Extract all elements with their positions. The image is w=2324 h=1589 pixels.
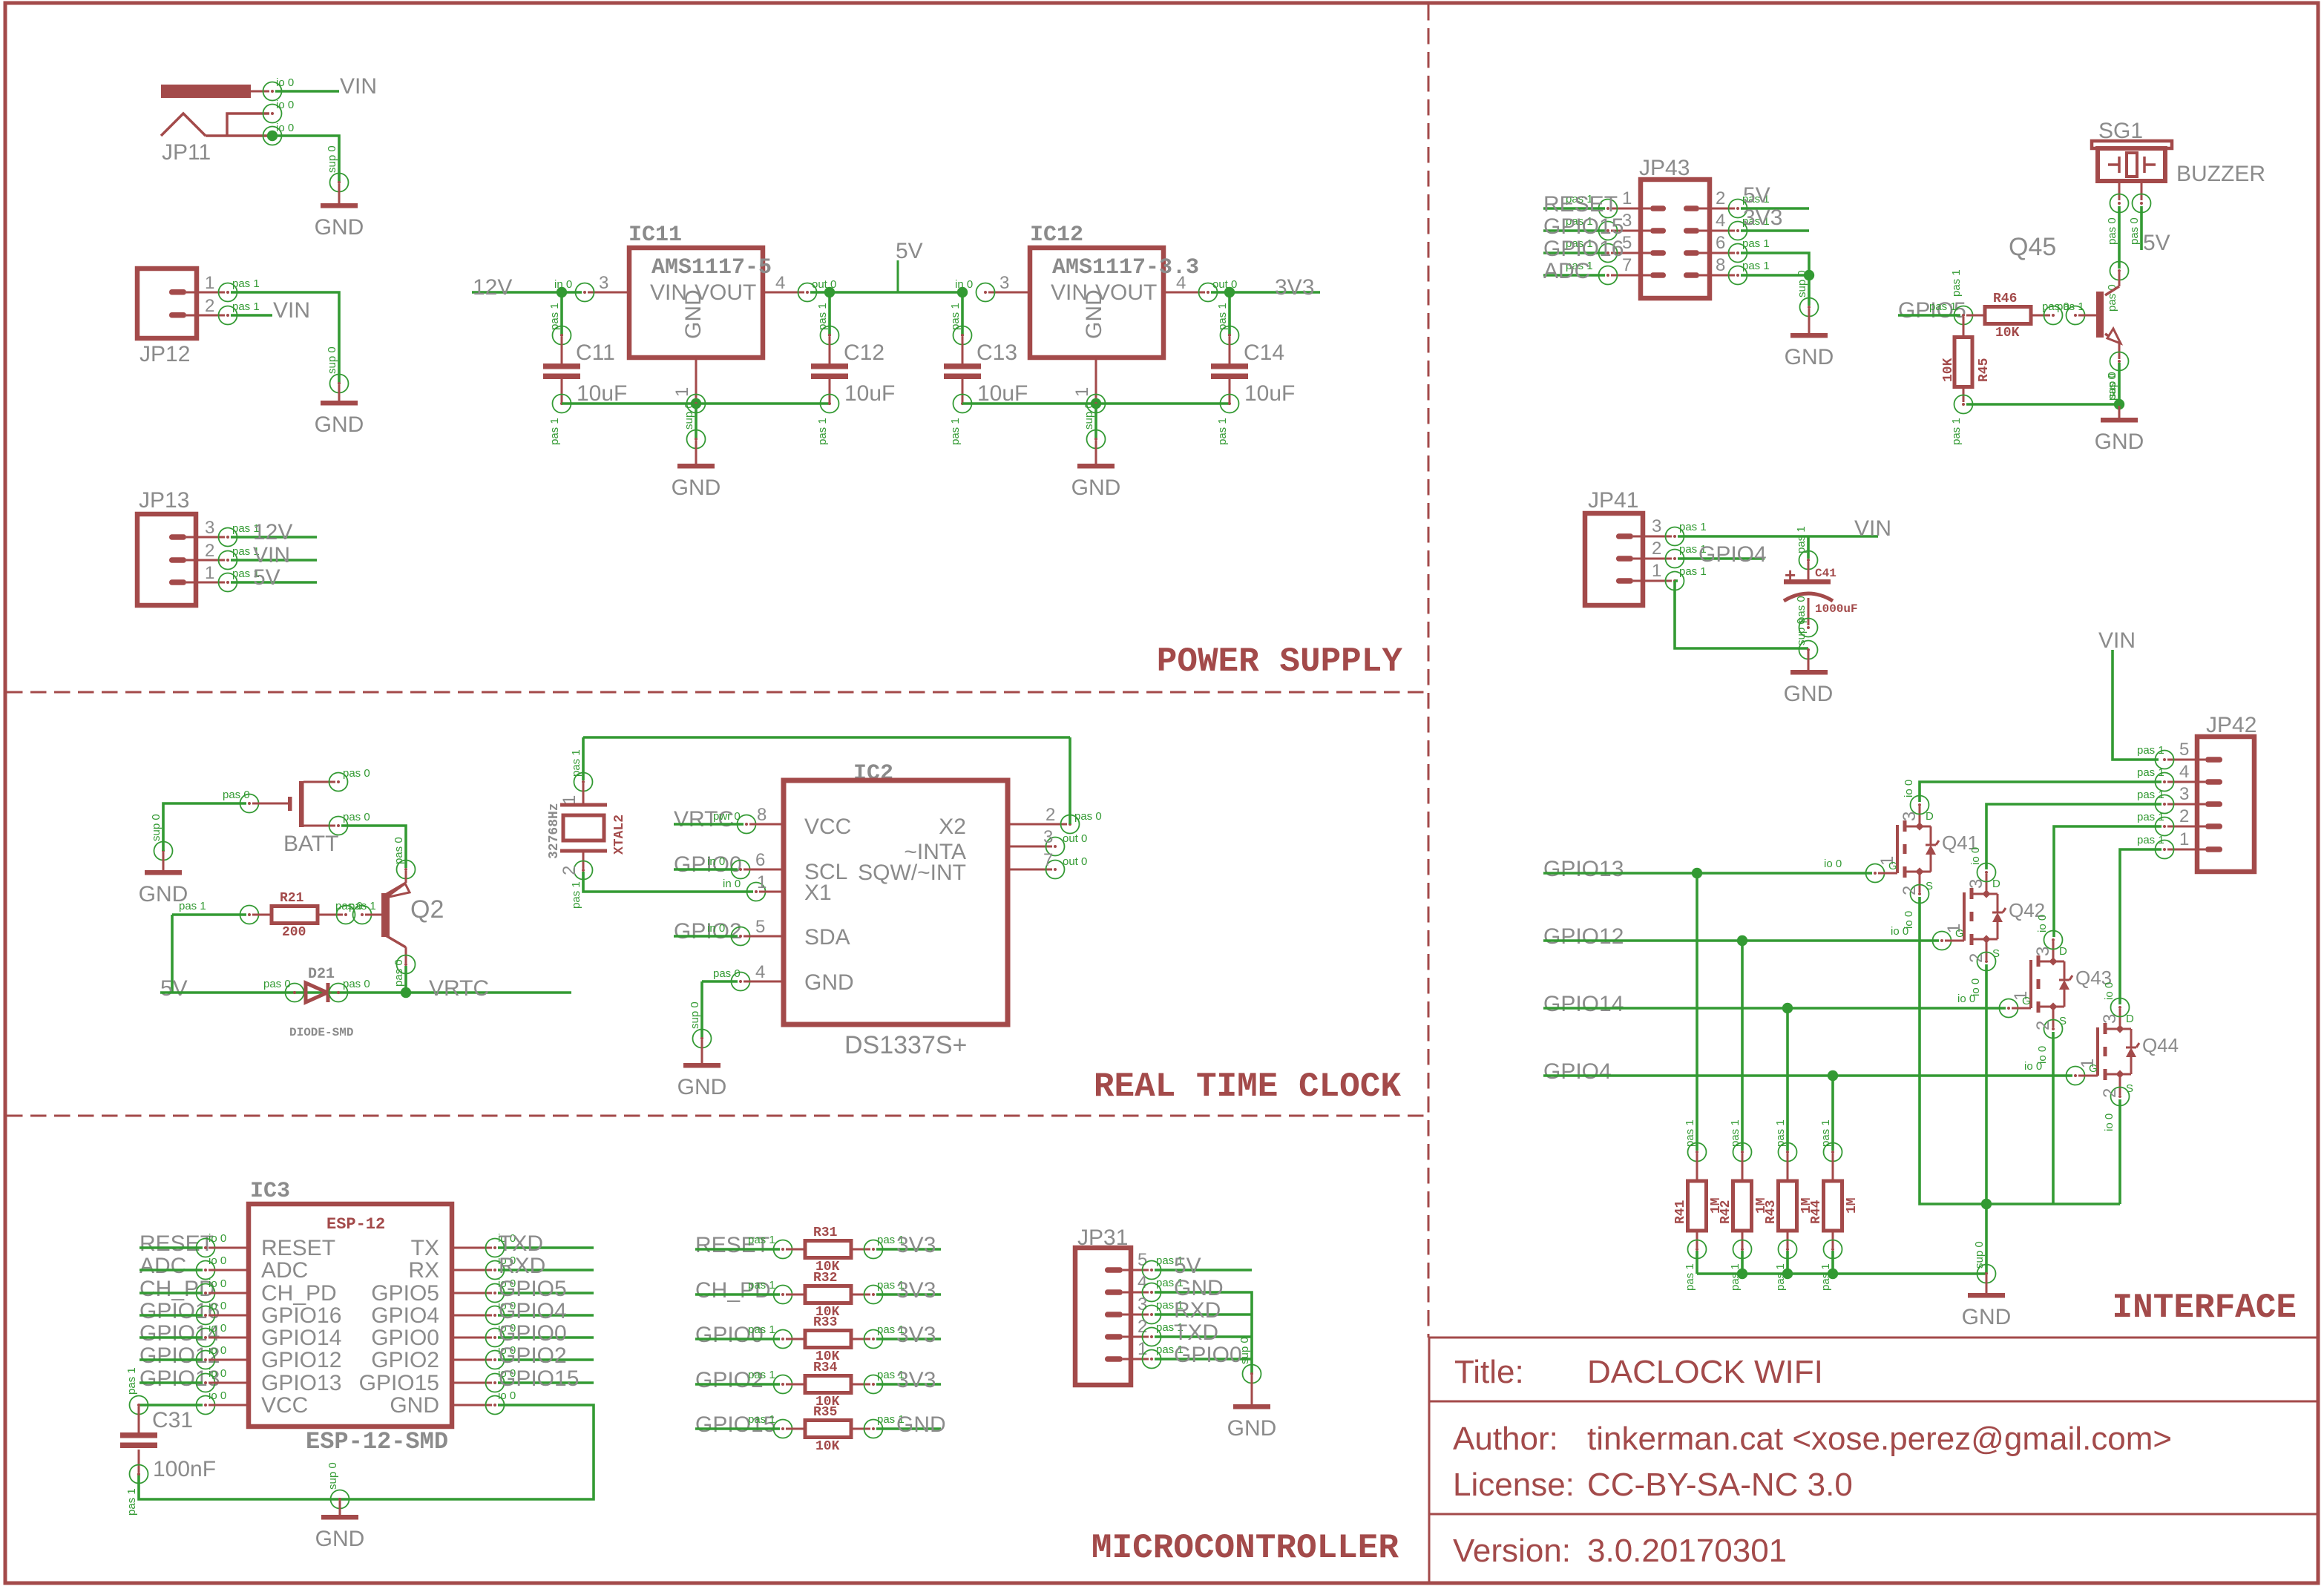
svg-text:sup 0: sup 0 [683,402,695,430]
wire GPIO12 to R42 [1741,941,1744,1151]
svg-text:4: 4 [775,273,785,293]
wire battery to Q2 emitter [341,826,406,868]
svg-text:GND: GND [315,1527,365,1551]
capacitor C13 [961,292,964,335]
title block frame [1429,1337,2317,1339]
svg-text:3V3: 3V3 [1275,275,1314,300]
svg-text:in 0: in 0 [723,878,741,890]
svg-text:GPIO4: GPIO4 [1543,1059,1612,1084]
svg-text:1: 1 [1622,188,1632,208]
svg-text:pas 1: pas 1 [1742,260,1770,272]
svg-text:BATT: BATT [283,832,338,856]
svg-text:2: 2 [1900,886,1920,895]
transistor Q2 (PNP) [405,871,407,883]
svg-text:Q44: Q44 [2142,1034,2179,1056]
svg-text:3: 3 [599,273,608,293]
svg-text:pas 1: pas 1 [548,303,561,330]
svg-text:io 0: io 0 [2103,1113,2115,1131]
svg-text:5V: 5V [160,976,188,1001]
svg-text:2: 2 [1652,539,1661,559]
svg-text:GPIO12: GPIO12 [1543,924,1624,949]
svg-text:pas 1: pas 1 [570,749,582,777]
junction source rail [1981,1199,1992,1209]
svg-text:pas 0: pas 0 [713,967,741,980]
IC11 pin 3 VIN [588,292,629,294]
svg-text:License:: License: [1453,1467,1575,1503]
svg-text:GND: GND [1227,1416,1277,1441]
svg-text:4: 4 [2179,762,2189,782]
svg-text:IC11: IC11 [628,223,682,248]
IC11 pin 1 GND [695,358,697,404]
svg-text:io 0: io 0 [209,1389,226,1402]
JP42 pin 2 [2205,823,2222,829]
svg-text:C12: C12 [844,340,884,365]
svg-text:10K: 10K [1995,326,2020,340]
svg-text:DACLOCK WIFI: DACLOCK WIFI [1587,1354,1823,1390]
svg-text:G: G [1955,927,1964,940]
svg-text:pas 0: pas 0 [393,959,405,987]
ground GND (IC12) [1087,430,1106,449]
svg-text:AMS1117-5: AMS1117-5 [651,255,772,280]
junction Q2/VRTC [401,987,411,998]
svg-text:12V: 12V [253,520,292,545]
svg-text:3: 3 [999,273,1009,293]
svg-text:Q2: Q2 [410,895,444,924]
junction GPIO14 / R43 [1782,1003,1793,1013]
svg-text:IC3: IC3 [250,1179,290,1204]
svg-text:pas 1: pas 1 [748,1323,775,1336]
svg-text:5V: 5V [1174,1254,1201,1278]
wire VIN from JP11 [275,90,339,93]
svg-text:sup 0: sup 0 [326,145,338,173]
JP41 pin 1 [1616,578,1633,584]
svg-text:3: 3 [205,518,214,538]
svg-text:CH_PD: CH_PD [139,1277,215,1301]
svg-text:pas 1: pas 1 [232,300,260,313]
svg-text:VIN: VIN [273,298,310,323]
svg-text:pas 1: pas 1 [1929,300,1957,313]
wire 5V to R21 [171,915,174,993]
svg-text:1M: 1M [1845,1197,1859,1214]
svg-text:pas 1: pas 1 [816,303,829,330]
svg-text:100nF: 100nF [153,1457,216,1481]
junction 5V / C13 [957,287,968,297]
svg-text:io 0: io 0 [1824,858,1842,870]
svg-text:1: 1 [672,387,692,397]
wire gnd drop [1985,1204,1988,1274]
svg-text:3: 3 [2100,1014,2120,1024]
svg-text:2: 2 [2179,806,2189,826]
IC12 pin 3 VIN [988,292,1030,294]
resistor R21 [172,913,246,916]
svg-text:VIN: VIN [2098,628,2136,653]
svg-text:pas 1: pas 1 [748,1234,775,1246]
svg-text:REAL TIME CLOCK: REAL TIME CLOCK [1094,1067,1401,1106]
junction GPIO13 / R41 [1692,868,1702,878]
svg-text:4: 4 [1176,273,1186,293]
svg-text:sup 0: sup 0 [1083,402,1095,430]
pin circles JP12 [219,283,237,302]
net 12V wire [472,291,582,294]
svg-text:CH_PD: CH_PD [261,1281,337,1306]
JP43 pin 7 (ADC) [1650,272,1666,278]
svg-text:io 0: io 0 [1903,780,1915,797]
wire battery to gnd [163,803,246,851]
svg-text:3V3: 3V3 [896,1368,936,1392]
svg-text:io 0: io 0 [2024,1060,2042,1073]
ground GND (C41) [1799,641,1818,659]
svg-text:5V: 5V [1743,183,1770,208]
svg-text:GPIO4: GPIO4 [371,1303,439,1328]
ground GND (IC3) [331,1490,349,1509]
svg-text:ESP-12-SMD: ESP-12-SMD [306,1428,448,1455]
IC12 pin 4 VOUT [1163,292,1205,294]
svg-text:R34: R34 [813,1361,838,1375]
IC2 pin 4 GND [702,980,738,983]
wire to ground (IC12) [1094,404,1097,439]
svg-text:1: 1 [757,872,767,892]
svg-text:X1: X1 [804,881,832,905]
svg-text:10uF: 10uF [577,381,627,406]
wire JP42.3 to Q42 drain [1986,804,2161,869]
svg-text:pas 1: pas 1 [2137,744,2164,757]
svg-text:io 0: io 0 [276,122,294,134]
svg-text:GPIO16: GPIO16 [261,1303,341,1328]
ground GND (Q45) [2118,406,2121,418]
svg-text:2: 2 [1966,953,1986,963]
svg-text:JP12: JP12 [139,342,190,366]
wire MOSFET sources to gnd rail [1920,897,2120,1204]
svg-text:in 0: in 0 [554,278,572,291]
junction GPIO12 / R42 [1737,935,1747,946]
svg-text:pas 1: pas 1 [1679,521,1707,533]
JP13 pin 1 (5V) [169,579,186,585]
svg-text:pas 1: pas 1 [548,418,561,445]
svg-text:RESET: RESET [139,1231,214,1256]
svg-text:GND: GND [1174,1276,1224,1300]
svg-text:sup 0: sup 0 [689,1001,701,1029]
wire JP11 to GND [275,136,339,182]
svg-text:R44: R44 [1809,1200,1824,1224]
svg-text:5V: 5V [253,565,280,590]
JP41 pin 3 [1616,533,1633,539]
svg-text:pas 1: pas 1 [179,900,206,912]
svg-text:pas 1: pas 1 [1795,526,1808,553]
svg-text:ADC: ADC [1543,259,1590,283]
svg-text:io 0: io 0 [209,1344,226,1357]
svg-text:pas 1: pas 1 [2137,834,2164,846]
svg-text:S: S [2126,1082,2133,1095]
svg-text:GND: GND [896,1412,946,1437]
JP43 pin 8 [1684,272,1699,278]
svg-text:C13: C13 [976,340,1017,365]
svg-text:pas 0: pas 0 [343,811,370,823]
svg-text:pas 1: pas 1 [2057,300,2084,313]
capacitor C14 [1228,292,1231,335]
svg-text:GND: GND [1784,682,1834,706]
junction JP43 gnd [1804,270,1814,280]
svg-text:POWER SUPPLY: POWER SUPPLY [1157,642,1403,681]
svg-text:pas 1: pas 1 [125,1488,138,1516]
svg-text:sup 0: sup 0 [326,346,338,374]
svg-text:GPIO14: GPIO14 [261,1326,341,1350]
svg-text:GPIO5: GPIO5 [371,1281,439,1306]
svg-text:pas 1: pas 1 [816,418,829,445]
svg-text:GND: GND [2095,430,2144,454]
svg-text:1: 1 [1072,387,1092,397]
svg-text:out 0: out 0 [1063,855,1087,868]
svg-text:INTERFACE: INTERFACE [2113,1289,2297,1327]
wire JP42.4 to Q41 drain [1920,782,2161,802]
ground GND (IC11) [687,430,706,449]
svg-text:VIN: VIN [1854,516,1891,541]
IC12 pin 1 GND [1095,358,1097,404]
ground GND (interface) [1977,1265,1996,1283]
svg-text:out 0: out 0 [1063,832,1087,845]
resistor R41 (1M) [1688,1143,1707,1162]
resistor R43 (1M) [1779,1143,1797,1162]
svg-text:XTAL2: XTAL2 [612,815,627,855]
svg-text:D: D [2126,1013,2134,1025]
svg-text:200: 200 [282,925,306,940]
JP43 pin 4 (3V3) [1684,228,1699,234]
svg-text:RESET: RESET [1543,192,1618,217]
junction VOUT / C12 [824,287,835,297]
svg-text:+: + [1785,564,1796,586]
svg-text:pas 0: pas 0 [343,978,370,990]
svg-text:pas 1: pas 1 [125,1367,138,1395]
svg-text:sup 0: sup 0 [1973,1241,1986,1269]
IC2 pin 2 X2 [1008,823,1067,826]
svg-text:JP13: JP13 [139,488,189,513]
svg-text:pas 1: pas 1 [1684,1263,1696,1291]
svg-text:R31: R31 [813,1226,838,1240]
svg-text:3: 3 [2179,784,2189,804]
svg-text:5V: 5V [896,239,923,263]
ground GND (JP43) [1800,298,1819,317]
ground GND (JP11) [330,174,349,192]
wire R45 to gnd rail [1966,403,2119,406]
transistor Q43 (N-MOSFET) [2000,999,2018,1018]
svg-text:G: G [2022,995,2031,1007]
capacitor C11 [560,292,563,335]
svg-text:S: S [1992,947,2000,960]
svg-text:io 0: io 0 [209,1254,226,1267]
svg-text:pas 1: pas 1 [949,303,962,330]
svg-text:pas 0: pas 0 [1074,810,1102,823]
transistor Q42 (N-MOSFET) [1933,932,1952,950]
svg-text:R35: R35 [813,1405,837,1420]
svg-text:RXD: RXD [1174,1298,1221,1323]
svg-text:pas 0: pas 0 [223,789,250,801]
svg-text:1: 1 [205,563,214,583]
svg-text:GPIO0: GPIO0 [371,1326,439,1350]
svg-text:VRTC: VRTC [429,976,489,1001]
connector JP11 (DC jack) [161,85,251,98]
section divider vertical dashed [1428,4,1430,1338]
svg-text:1: 1 [1652,561,1661,581]
svg-text:C41: C41 [1815,567,1836,580]
svg-text:R45: R45 [1977,358,1992,382]
svg-text:1: 1 [205,273,214,293]
svg-text:sup 0: sup 0 [150,814,163,841]
svg-text:5V: 5V [2143,231,2170,255]
svg-text:10K: 10K [815,1439,840,1454]
svg-text:io 0: io 0 [2036,915,2049,932]
svg-text:pas 0: pas 0 [2106,217,2118,245]
svg-text:pas 1: pas 1 [349,900,376,912]
JP43 pin 5 (GPIO16) [1650,250,1666,256]
junction VOUT / C14 [1224,287,1235,297]
svg-text:io 0: io 0 [498,1389,516,1402]
svg-text:D: D [1926,810,1934,823]
ground GND (IC2) [693,1030,712,1048]
wire JP42.1 to Q44 drain [2120,849,2161,1004]
wire GPIO4 to R44 [1831,1076,1834,1151]
JP43 pin 2 (5V) [1684,205,1699,211]
svg-text:GPIO15: GPIO15 [499,1366,579,1391]
SG1 pin 2 / net 5V [2141,181,2143,200]
svg-text:JP42: JP42 [2206,713,2256,737]
svg-text:C14: C14 [1244,340,1284,365]
svg-text:sup 0: sup 0 [1796,270,1808,297]
svg-text:4: 4 [1716,211,1725,231]
svg-text:Author:: Author: [1453,1421,1558,1457]
svg-text:3V3: 3V3 [1743,205,1782,230]
svg-text:GND: GND [315,412,364,437]
svg-text:CC-BY-SA-NC 3.0: CC-BY-SA-NC 3.0 [1587,1467,1853,1503]
svg-text:TX: TX [411,1236,439,1260]
JP42 pin 1 [2205,846,2222,852]
wire IC3 GND loop to C31 [139,1405,594,1499]
svg-text:GPIO2: GPIO2 [371,1348,439,1372]
svg-text:pas 1: pas 1 [570,881,582,909]
svg-text:in 0: in 0 [707,855,725,868]
JP31 pin 4 (GND) [1105,1289,1123,1295]
capacitor C31 [138,1407,140,1432]
JP31 pin 1 (GPIO0) [1105,1356,1123,1362]
svg-text:DIODE-SMD: DIODE-SMD [289,1026,353,1039]
svg-text:MICROCONTROLLER: MICROCONTROLLER [1092,1529,1399,1567]
svg-text:10uF: 10uF [844,381,895,406]
svg-text:io 0: io 0 [1957,993,1975,1005]
resistor R42 (1M) [1733,1143,1752,1162]
JP42 pin 5 [2205,757,2222,763]
svg-text:GPIO13: GPIO13 [1543,857,1624,881]
svg-text:2: 2 [1716,188,1725,208]
svg-text:VCC: VCC [261,1393,308,1418]
resistor R46 [1966,315,1985,317]
svg-text:sup 0: sup 0 [326,1462,339,1490]
svg-text:3: 3 [1900,812,1920,821]
svg-text:in 0: in 0 [707,922,725,935]
svg-text:C11: C11 [576,340,615,365]
junction GPIO4 / R44 [1828,1070,1838,1081]
svg-text:DS1337S+: DS1337S+ [844,1031,967,1059]
wire X2 to crystal [1069,737,1071,824]
connector JP12 [137,269,197,338]
svg-text:pas 1: pas 1 [1216,303,1229,330]
svg-text:pas 1: pas 1 [1950,418,1963,445]
IC3 VCC pin / C31 wire [139,1404,203,1407]
wire SG1 to Q45 collector [2118,206,2121,269]
SG1 pin 1 [2118,181,2121,200]
svg-text:10K: 10K [1941,358,1956,382]
IC2 pin 3 ~INTA [1008,846,1052,848]
svg-text:2: 2 [2100,1088,2120,1098]
svg-text:3: 3 [1652,516,1661,536]
wire C11 gnd rail [562,402,830,405]
svg-text:2: 2 [205,296,214,316]
svg-text:TXD: TXD [499,1231,543,1256]
svg-text:R32: R32 [813,1271,837,1286]
svg-text:pas 0: pas 0 [263,978,291,990]
svg-text:D: D [1992,878,2000,890]
svg-text:GPIO12: GPIO12 [261,1348,341,1372]
JP31 pin 2 (TXD) [1105,1334,1123,1340]
svg-text:S: S [2059,1015,2067,1027]
svg-text:io 0: io 0 [209,1277,226,1290]
svg-text:GND: GND [315,215,364,240]
svg-text:RX: RX [408,1258,439,1283]
JP13 pin 3 (12V) [169,534,186,540]
svg-text:3: 3 [1043,827,1053,847]
svg-text:32768Hz: 32768Hz [547,803,562,859]
svg-text:BUZZER: BUZZER [2176,162,2265,186]
svg-text:GPIO4: GPIO4 [1698,542,1767,567]
JP13 pin 2 (VIN) [169,557,186,563]
wire JP41.1 to gnd [1675,579,1678,582]
wire JP43 pins 6,8 to GND [1741,253,1809,275]
svg-text:6: 6 [755,850,765,870]
svg-text:pas 1: pas 1 [748,1369,775,1381]
JP31 pin 3 (RXD) [1105,1312,1123,1317]
svg-text:1000uF: 1000uF [1815,602,1858,616]
wire C13 gnd rail [962,402,1230,405]
svg-text:GPIO4: GPIO4 [499,1299,567,1323]
svg-text:8: 8 [1716,255,1725,275]
capacitor C12 [828,292,831,335]
capacitor C41 (electrolytic) [1807,536,1810,559]
svg-text:G: G [2089,1062,2098,1075]
JP42 pin 4 [2205,779,2222,785]
svg-text:D: D [2059,945,2067,958]
svg-text:3V3: 3V3 [896,1278,936,1303]
svg-text:pas 1: pas 1 [1819,1119,1832,1147]
svg-text:pas 0: pas 0 [393,837,405,864]
svg-text:sup 0: sup 0 [1795,618,1808,645]
section divider horizontal dashed 2 [7,1115,1428,1117]
svg-text:GND: GND [1071,476,1121,500]
wire 5V rail RTC [160,991,571,994]
svg-text:D21: D21 [308,966,335,983]
svg-text:C31: C31 [152,1408,193,1432]
svg-text:IC12: IC12 [1030,223,1083,248]
svg-text:pas 1: pas 1 [949,418,962,445]
svg-text:pas 1: pas 1 [2137,766,2164,779]
svg-text:pas 1: pas 1 [2137,811,2164,823]
junction JP11 pin3 [267,131,278,141]
svg-text:GPIO0: GPIO0 [1174,1343,1242,1367]
junction 12V / C11 [557,287,567,297]
svg-text:ESP-12: ESP-12 [326,1215,385,1234]
net label GPIO4 (JP41) [1678,557,1765,560]
svg-text:SQW/~INT: SQW/~INT [858,861,966,885]
svg-text:io 0: io 0 [1969,847,1982,865]
svg-text:VCC: VCC [804,815,851,839]
svg-text:io 0: io 0 [209,1300,226,1312]
svg-text:ADC: ADC [139,1254,186,1278]
